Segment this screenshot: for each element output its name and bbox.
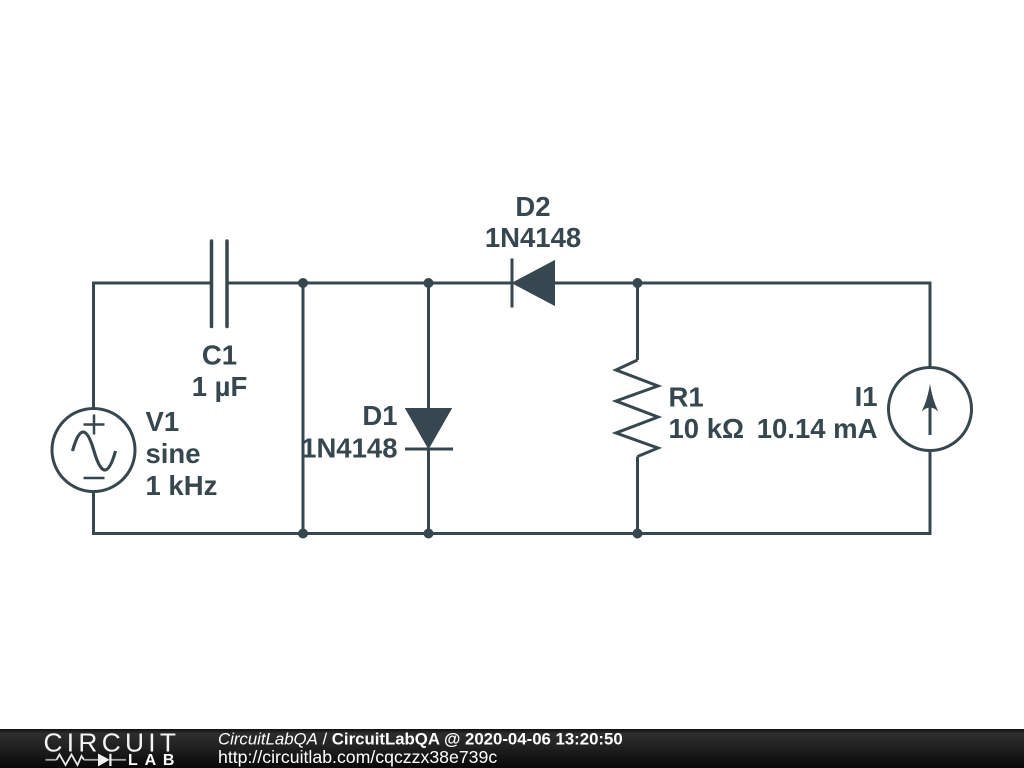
svg-text:1N4148: 1N4148 — [301, 433, 397, 464]
capacitor C1 labels — [192, 340, 248, 403]
diode D2 — [512, 259, 554, 308]
svg-text:http://circuitlab.com/cqczzx38: http://circuitlab.com/cqczzx38e739c — [218, 747, 497, 767]
footer line 2: url — [218, 747, 497, 767]
junction node top-right — [633, 278, 643, 288]
wire bottom rail with V1 and I1 bottom leads — [94, 451, 931, 534]
voltage source V1 labels — [146, 406, 218, 501]
current source I1 labels — [757, 381, 878, 444]
svg-text:LAB: LAB — [128, 752, 181, 768]
resistor R1 — [616, 360, 658, 457]
capacitor C1 — [212, 241, 228, 327]
svg-text:C1: C1 — [202, 340, 237, 371]
junction node top-left — [298, 278, 308, 288]
junction node bottom-middle — [424, 529, 434, 539]
svg-text:V1: V1 — [146, 406, 180, 437]
wire D1 top lead — [427, 283, 430, 409]
svg-text:1 kHz: 1 kHz — [146, 470, 218, 501]
svg-text:D1: D1 — [362, 400, 397, 431]
CircuitLab logo LAB — [128, 752, 181, 768]
svg-text:CircuitLabQA / CircuitLabQA @: CircuitLabQA / CircuitLabQA @ 2020-04-06… — [218, 730, 623, 749]
svg-text:sine: sine — [146, 438, 201, 469]
wire middle node vertical — [302, 283, 305, 534]
svg-text:10.14 mA: 10.14 mA — [757, 413, 878, 444]
diode D1 labels — [301, 400, 397, 464]
junction node bottom-left — [298, 529, 308, 539]
diode D1 — [405, 409, 453, 449]
voltage source V1 — [52, 409, 135, 492]
junction node top-middle — [424, 278, 434, 288]
current source I1 — [889, 368, 972, 451]
wire R1 top lead — [636, 283, 639, 360]
svg-text:10 kΩ: 10 kΩ — [669, 413, 745, 444]
junction node bottom-right — [633, 529, 643, 539]
wire top-left from C1 to V1 top lead — [94, 283, 211, 409]
CircuitLab logo CIRCUIT — [44, 727, 181, 757]
svg-text:I1: I1 — [855, 381, 878, 412]
svg-text:D2: D2 — [515, 191, 550, 222]
svg-text:R1: R1 — [669, 382, 704, 413]
diode D2 labels — [485, 191, 581, 253]
wire top-right from D2 to I1 top lead — [554, 283, 930, 368]
footer bar — [0, 729, 1024, 768]
wire top-middle from C1 through nodes to D2 — [229, 282, 511, 285]
resistor R1 labels — [669, 382, 745, 445]
wire R1 bottom lead — [636, 457, 639, 534]
svg-text:1 µF: 1 µF — [192, 371, 248, 402]
footer line 1: title and timestamp — [218, 730, 623, 749]
CircuitLab logo resistor-diode glyph — [46, 754, 127, 766]
wire D1 bottom lead — [427, 449, 430, 534]
svg-text:1N4148: 1N4148 — [485, 222, 581, 253]
